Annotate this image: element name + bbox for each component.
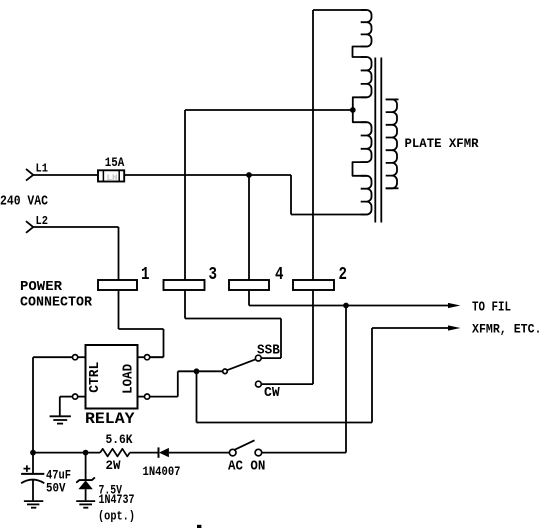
node primary tap junction	[350, 107, 356, 113]
svg-text:2: 2	[339, 265, 348, 285]
wire pin 3 to tap	[184, 110, 186, 280]
zener D2 cathode bar	[76, 477, 95, 482]
wire acon riser	[345, 306, 347, 453]
switch S1 pole	[223, 369, 228, 374]
label TO FIL	[472, 301, 511, 316]
wire acon to riser	[262, 452, 346, 454]
label 1N4007	[143, 464, 181, 479]
switch S2 left contact	[229, 449, 236, 456]
wire pin 4 lower to fil line	[248, 290, 250, 306]
svg-text:(opt.): (opt.)	[98, 509, 135, 524]
svg-text:CONNECTOR: CONNECTOR	[20, 294, 92, 310]
relay terminal load bottom	[138, 394, 150, 399]
label LOAD	[121, 364, 136, 394]
label CTRL	[88, 362, 103, 393]
label CW	[264, 386, 280, 401]
label PLATE XFMR	[405, 137, 479, 152]
wire pin 1 lower to relay	[119, 290, 164, 357]
wire load-bottom to switch pole	[150, 371, 223, 396]
label 47uF	[46, 468, 71, 483]
svg-text:1N4007: 1N4007	[143, 464, 181, 479]
wire primary jog 1	[353, 47, 367, 58]
svg-text:TO FIL: TO FIL	[472, 301, 511, 316]
label 2W	[106, 458, 121, 473]
svg-text:CTRL: CTRL	[88, 362, 103, 393]
wire rail to cap	[32, 453, 34, 474]
svg-text:15A: 15A	[105, 156, 125, 171]
svg-text:L1: L1	[36, 162, 49, 176]
wire fuse to junction	[124, 174, 291, 176]
label pin 4	[275, 265, 284, 285]
svg-text:4: 4	[275, 265, 284, 285]
wire ctrl-bottom to ground	[60, 397, 73, 416]
svg-text:SSB: SSB	[257, 344, 280, 359]
switch S1 CW contact	[256, 381, 262, 387]
inductor T1 primary section 4	[361, 176, 372, 215]
connector pin 4 body	[229, 280, 269, 290]
svg-text:L2: L2	[36, 214, 49, 228]
label 15A	[105, 156, 125, 171]
label pin 2	[339, 265, 348, 285]
wire pin 2 lower to CW	[261, 290, 313, 384]
wire pin 2 to xfmr top	[312, 10, 314, 280]
label L1	[36, 162, 49, 176]
page mark	[197, 525, 201, 528]
label XFMR, ETC.	[472, 322, 540, 337]
label L2	[36, 214, 49, 228]
wire pin 4 to L1 junction	[248, 175, 250, 280]
ground capacitor	[24, 501, 43, 508]
label 1N4737	[99, 492, 135, 507]
svg-text:50V: 50V	[46, 480, 66, 495]
label 7.5V	[99, 483, 123, 498]
wire xfmr-etc riser	[197, 328, 373, 423]
resistor R1 5.6K	[100, 449, 130, 457]
node junction fil/acon	[343, 303, 349, 309]
zener D2 body	[78, 480, 92, 489]
switch S2 blade	[235, 440, 255, 450]
switch S1 SSB contact	[255, 355, 261, 361]
label POWER	[20, 279, 62, 295]
svg-text:LH: LH	[107, 173, 118, 183]
wire rail to zener	[85, 453, 87, 480]
ground relay	[50, 416, 71, 423]
svg-text:LOAD: LOAD	[121, 364, 136, 394]
node junction cap/rail	[30, 450, 36, 456]
svg-text:3: 3	[209, 265, 218, 285]
svg-text:1: 1	[141, 265, 150, 285]
capacitor C1 top plate	[21, 473, 44, 475]
wire L1 corner to xfmr bottom	[291, 175, 367, 215]
label AC ON	[228, 459, 265, 474]
label 240 VAC	[0, 195, 48, 210]
node junction pole/xfmr-etc	[194, 368, 200, 374]
diode D1 1N4007	[159, 447, 230, 457]
wire pole junction down	[196, 371, 198, 422]
node L1 input terminal	[26, 169, 33, 181]
wire resistor to diode	[130, 452, 158, 454]
label 5.6K	[106, 432, 133, 447]
svg-text:AC ON: AC ON	[228, 459, 265, 474]
wire secondary top lead	[386, 98, 399, 100]
wire load-top to pin1	[150, 356, 164, 358]
relay terminal load top	[138, 355, 150, 360]
label + polarity	[24, 465, 31, 472]
svg-text:XFMR, ETC.: XFMR, ETC.	[472, 322, 540, 337]
label pin 1	[141, 265, 150, 285]
wire pin 3 lower to SSB	[185, 290, 281, 358]
connector pin 2 body	[293, 280, 334, 290]
wire L2 run	[33, 227, 118, 280]
switch S2 right contact	[255, 449, 262, 456]
relay terminal ctrl bottom	[73, 394, 86, 399]
svg-text:2W: 2W	[106, 458, 121, 473]
wire to-fil bus	[249, 305, 449, 307]
arrow xfmr etc	[448, 325, 461, 330]
wire tap to pin 3	[185, 109, 353, 111]
wire zener to ground	[85, 489, 87, 500]
ground zener	[76, 501, 95, 508]
inductor T1 secondary	[386, 99, 397, 188]
inductor T1 primary section 1	[361, 10, 372, 47]
wire rail cap-zener	[33, 452, 100, 454]
switch S1 blade	[227, 359, 256, 370]
svg-text:240 VAC: 240 VAC	[0, 195, 48, 210]
svg-text:CW: CW	[264, 386, 280, 401]
node junction zener/rail	[83, 450, 89, 456]
wire primary tap jog	[353, 97, 367, 122]
wire xfmr top lead	[313, 9, 367, 11]
label SSB	[257, 344, 280, 359]
svg-text:1N4737: 1N4737	[99, 492, 135, 507]
relay terminal ctrl top	[73, 355, 86, 360]
wire ctrl-top to left rail	[33, 357, 73, 452]
node junction L1/pin4	[246, 172, 252, 178]
label RELAY	[85, 410, 135, 428]
label pin 3	[209, 265, 218, 285]
svg-text:POWER: POWER	[20, 279, 62, 295]
wire L1 to fuse	[33, 174, 98, 176]
svg-text:PLATE XFMR: PLATE XFMR	[405, 137, 479, 152]
svg-text:RELAY: RELAY	[85, 410, 135, 428]
fuse interior mark	[107, 173, 118, 183]
wire xfmr-etc bus	[372, 327, 449, 329]
wire secondary bottom lead	[386, 187, 399, 189]
label 50V	[46, 480, 66, 495]
arrow to fil	[448, 303, 461, 308]
label CONNECTOR	[20, 294, 92, 310]
fuse F1 15A body	[98, 170, 124, 181]
inductor T1 primary section 3	[361, 122, 372, 162]
capacitor C1 bottom plate	[21, 480, 44, 484]
connector pin 3 body	[164, 280, 205, 290]
node L2 input terminal	[26, 221, 33, 233]
inductor T1 primary section 2	[361, 57, 372, 97]
wire primary jog 2	[353, 162, 367, 176]
label (opt.)	[98, 509, 135, 524]
transformer T1 core	[375, 58, 381, 223]
wire cap to ground	[32, 480, 34, 501]
svg-text:5.6K: 5.6K	[106, 432, 133, 447]
relay K1 body	[86, 345, 138, 409]
connector pin 1 body	[98, 280, 137, 290]
